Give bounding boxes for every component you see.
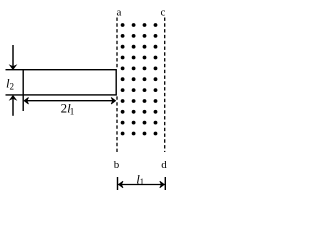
left edge extension line below plate [22,95,24,111]
l2 dimension arrow (down) [10,45,16,69]
top extension line [6,69,24,71]
dashed boundary line a-b [116,18,118,153]
field dots (B out of page) [121,23,158,135]
bottom extension line [6,94,24,96]
svg-text:2: 2 [10,82,15,92]
plate rectangle [23,70,116,95]
dashed boundary line c-d [164,18,166,153]
svg-text:1: 1 [140,177,145,187]
svg-text:1: 1 [70,107,75,117]
l1 dimension (bottom) [118,177,166,190]
svg-text:a: a [117,7,122,19]
svg-text:c: c [161,7,166,19]
svg-text:d: d [161,159,167,171]
2l1 dimension arrow [24,97,116,104]
svg-text:b: b [114,159,120,171]
l2 dimension arrow (up) [10,96,16,116]
